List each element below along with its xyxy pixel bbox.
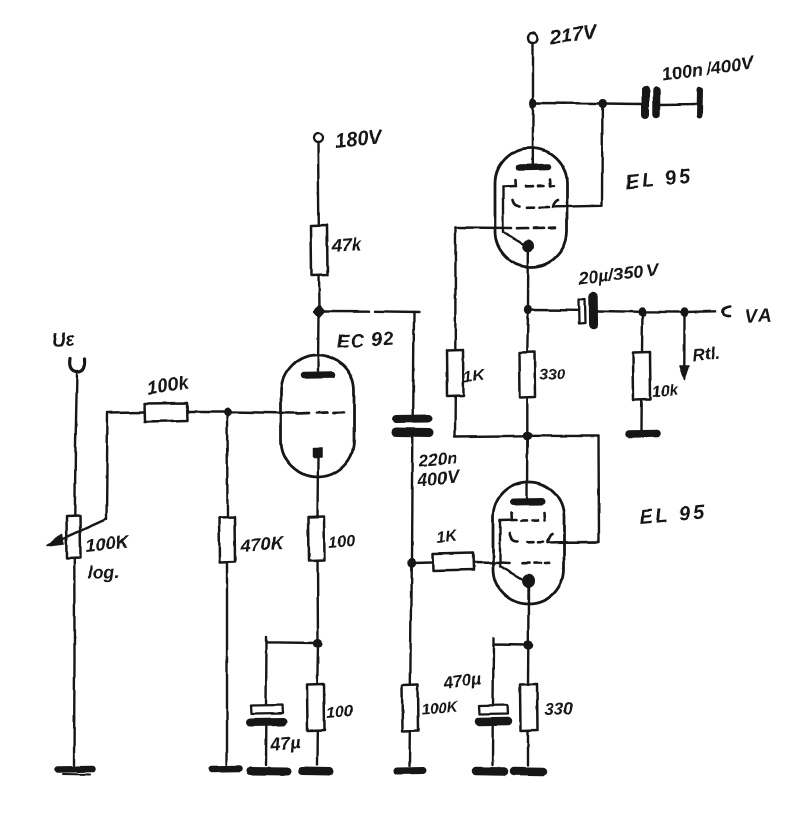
terminal Ue input hook [70, 358, 85, 372]
capacitor 47u plate bottom [250, 718, 283, 727]
capacitor 220n plate bottom [396, 428, 429, 438]
ground (330 lower) [514, 767, 543, 776]
wire 47k to anode node [317, 276, 320, 307]
ground (potentiometer) [58, 766, 93, 773]
junction bias node [523, 431, 532, 440]
terminal 217V [528, 33, 538, 43]
wire EL95 lower cathode down [527, 588, 530, 642]
wire cathode node down to 330 lower [527, 645, 530, 684]
wire cathode node to 20u cap [528, 309, 577, 312]
wire 100n to output stub [661, 103, 698, 106]
wire 330 upper to bias node [526, 398, 528, 433]
wire 470u top lead [492, 645, 495, 706]
wire 20u to VA [598, 311, 716, 312]
svg-text:Rtl.: Rtl. [692, 344, 721, 365]
junction EC92 cathode bypass node [313, 639, 322, 648]
wire B+ node to 100n node [533, 102, 602, 105]
wire input to potentiometer [75, 372, 77, 516]
wire Rtl arrow [683, 317, 686, 366]
EL95 upper g3-to-cathode link [503, 187, 523, 245]
potentiometer wiper arrow [60, 519, 107, 540]
resistor 330 lower body [520, 684, 538, 731]
capacitor 470u plate top [479, 705, 508, 714]
EC92 grid dashes [296, 412, 344, 413]
resistor 100k series body [144, 403, 188, 422]
resistor 100 upper (EC92 cathode) body [308, 517, 325, 561]
ground (100 lower) [302, 767, 330, 776]
EL95 upper grid2 (screen) [513, 201, 559, 208]
svg-text:470K: 470K [239, 533, 286, 556]
svg-text:400V: 400V [416, 466, 463, 490]
terminal 180V [314, 134, 323, 143]
ground (470u) [476, 767, 504, 776]
wire 330 lower to ground [527, 731, 529, 765]
resistor 330 upper body [519, 352, 536, 398]
wire 100k to grid node [188, 411, 228, 413]
junction Rtl node [681, 307, 689, 317]
wire EC92 cathode down [316, 457, 319, 517]
EC92 anode plate [304, 371, 332, 378]
EL95 upper cathode [522, 240, 534, 253]
capacitor 20u plate right [588, 297, 598, 325]
wire grid node down to 100K [410, 563, 411, 685]
svg-text:1K: 1K [463, 367, 487, 386]
wire 470K to ground [226, 562, 228, 765]
wire EL95 upper grid1 down to 1K [454, 228, 457, 351]
ground (470K) [212, 766, 239, 773]
wire bias rail to lower EL95 screen [554, 436, 599, 542]
svg-text:47µ: 47µ [268, 732, 302, 755]
junction EC92 anode node [314, 305, 325, 318]
wire 100 upper to bypass node [316, 561, 319, 643]
wire grid node down to 470K [226, 413, 229, 518]
capacitor 470u plate bottom [479, 717, 508, 726]
tube EL95 upper envelope [495, 148, 567, 267]
wire EL95 upper cathode down [527, 252, 530, 307]
wire 100n node to capacitor [603, 102, 642, 105]
wire 180V to 47k [317, 143, 320, 226]
wire cathode node to 470u [494, 639, 529, 646]
junction upper cathode node [524, 305, 532, 315]
svg-text:1K: 1K [436, 528, 460, 547]
resistor 1K upper body [447, 350, 464, 396]
wire potentiometer to ground [73, 558, 76, 766]
ground (100K) [397, 767, 423, 775]
svg-text:330: 330 [544, 699, 574, 719]
wire B+ node down to EL95 anode [532, 104, 535, 166]
wire bias node down to lower EL95 anode [526, 436, 529, 498]
junction lower-EL95 grid node [407, 558, 415, 567]
ground (10k) [629, 430, 657, 438]
resistor 100 lower body [307, 684, 325, 731]
wire 10k node down [641, 312, 644, 352]
junction B+ node [529, 98, 537, 108]
terminal VA hook [723, 307, 730, 317]
EL95 lower grid3 (suppressor) [500, 513, 545, 521]
wire EC92 anode up to node [317, 311, 320, 371]
wire grid node to 1K grid stopper [412, 561, 434, 564]
wire bypass node to 47u [267, 637, 319, 644]
resistor 100K grid leak body [402, 685, 419, 732]
resistor 10k body [633, 352, 651, 400]
junction 100n node [599, 99, 607, 108]
wire bias rail [455, 435, 599, 438]
wire 100K to ground [409, 732, 412, 767]
capacitor 20u plate left [579, 299, 586, 324]
svg-text:VA: VA [744, 305, 774, 328]
resistor 470K body [219, 517, 235, 562]
resistor 1K grid stopper body [433, 553, 474, 571]
potentiometer 100K log body [67, 516, 81, 558]
junction lower cathode node [523, 640, 533, 649]
wire grid node to EC92 grid [228, 412, 295, 413]
junction EC92 grid node [224, 408, 232, 417]
wire 10k to ground [640, 400, 643, 430]
svg-text:EC 92: EC 92 [336, 329, 395, 353]
wire 217V down to B+ node [532, 43, 534, 100]
EL95 lower anode plate [514, 498, 542, 506]
wire 470u to ground [492, 726, 495, 765]
svg-text:Uε: Uε [51, 329, 76, 352]
capacitor 100n plate left [642, 90, 650, 115]
tube EC92 envelope [281, 355, 354, 477]
svg-text:47k: 47k [330, 234, 363, 256]
terminal output stub [697, 90, 704, 116]
svg-text:10k: 10k [652, 381, 679, 401]
capacitor 100n plate right [653, 91, 661, 115]
wire 1K to lower EL95 grid [474, 561, 500, 564]
EL95 upper grid1 (control) [456, 226, 556, 229]
EL95 lower grid2 (screen) [510, 534, 553, 543]
wire wiper to 100k series resistor [107, 412, 145, 520]
svg-text:log.: log. [87, 561, 120, 583]
EL95 lower g3-to-cathode link [500, 521, 522, 580]
tube EL95 lower envelope [493, 482, 564, 604]
wire 220n down to grid node [410, 437, 413, 562]
capacitor 47u plate top [251, 705, 283, 714]
wire 100 lower to ground [316, 731, 319, 766]
wire cathode node down to 330 upper [526, 314, 529, 352]
wire 1K upper to bias rail [454, 396, 457, 436]
wire anode node to 220n [324, 311, 419, 312]
EL95 lower grid1 (control) [499, 561, 550, 564]
ground (47u) [250, 767, 287, 776]
capacitor 220n plate top [396, 415, 428, 424]
resistor 47k body [311, 225, 328, 276]
EL95 upper anode plate [519, 164, 548, 171]
wire 47u top lead [265, 643, 268, 706]
wire EL95 lower screen exit [548, 541, 599, 544]
EL95 lower cathode [522, 574, 534, 588]
svg-text:100K: 100K [421, 698, 459, 718]
junction 10k node [639, 307, 647, 317]
wire EL95 upper screen to 100n node [554, 104, 602, 207]
wire 47u to ground [265, 727, 268, 766]
svg-text:100: 100 [326, 703, 354, 722]
wire bypass node down to 100 lower [316, 644, 319, 685]
EL95 upper grid3 (suppressor) [503, 180, 554, 187]
EC92 cathode [313, 448, 322, 457]
svg-text:100: 100 [328, 533, 356, 552]
svg-text:330: 330 [539, 366, 566, 384]
